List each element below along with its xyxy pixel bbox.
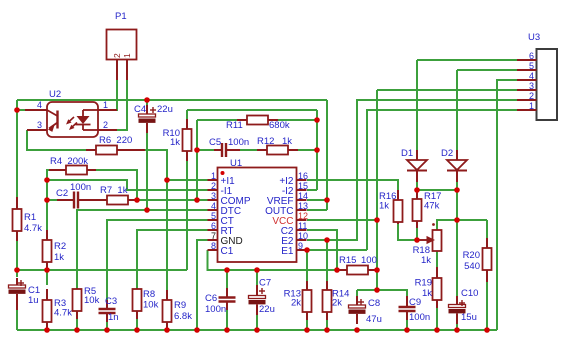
svg-text:R15: R15 (339, 255, 356, 266)
resistor R13 (303, 281, 312, 320)
svg-text:P1: P1 (115, 11, 127, 22)
U2 pin 1 stub (98, 100, 117, 110)
U1 pin 6 RT (208, 221, 234, 237)
svg-text:R9: R9 (174, 300, 186, 311)
resistor R17 (413, 189, 422, 228)
svg-text:47u: 47u (366, 314, 382, 325)
svg-text:14: 14 (298, 191, 308, 201)
wire DTC (77, 210, 208, 288)
wire R8 bottom (136, 319, 138, 330)
wire P1-2 to U2-2 (99, 80, 127, 130)
wire P1-1 to U2-1 (99, 80, 117, 110)
junction rail x=457 (454, 327, 460, 333)
wire R3 top (46, 270, 48, 285)
U3 pin 2 stub (517, 91, 537, 101)
wire R14 top (326, 240, 328, 286)
wire feedback vert (316, 110, 318, 190)
label C10 15u (461, 288, 478, 323)
junction rail x=257 (254, 327, 260, 333)
P1 pin 1 stub (122, 53, 132, 80)
resistor R10 (183, 119, 192, 161)
svg-text:C10: C10 (461, 288, 478, 299)
capacitor C10 (polarized) (449, 296, 466, 324)
wire C5 to R12 (238, 149, 259, 151)
label R3 4.7k (54, 298, 72, 319)
U1 pin 7 GND (208, 231, 243, 247)
wire VREF right drop to pin14 (326, 100, 328, 200)
svg-text:2: 2 (103, 120, 108, 130)
wire C1 bottom (16, 306, 18, 330)
U1 pin 10 E2 (281, 231, 308, 247)
junction C7 top (254, 267, 260, 273)
svg-text:1k: 1k (422, 288, 432, 299)
svg-text:1k: 1k (54, 252, 64, 263)
wire C10 bottom (456, 320, 458, 330)
resistor R2 (43, 230, 52, 270)
svg-text:2: 2 (211, 181, 216, 191)
svg-text:540: 540 (464, 261, 480, 272)
wire output node (456, 190, 458, 306)
U1 pin 5 CT (208, 211, 234, 227)
svg-text:100n: 100n (205, 304, 226, 315)
wire R10 top (186, 110, 188, 129)
U1 pin 4 DTC (208, 201, 242, 217)
junction E1/R13 (304, 247, 310, 253)
resistor R20 (483, 238, 492, 282)
wire R2 top (46, 200, 48, 240)
wire C2 left (47, 199, 66, 201)
wire VCC to C8/C9 (357, 290, 407, 303)
svg-text:C5: C5 (209, 137, 221, 148)
svg-text:4.7k: 4.7k (24, 223, 42, 234)
wire D2 to U3-5 (457, 69, 517, 71)
svg-text:R7 1k: R7 1k (100, 185, 128, 196)
svg-text:680k: 680k (269, 120, 290, 131)
svg-text:9: 9 (298, 241, 303, 251)
wire R14 bottom (326, 319, 328, 330)
U1 pin 16 +I2 (279, 171, 308, 187)
junction rail x=107 (104, 327, 110, 333)
wire C6 bottom (226, 308, 228, 330)
junction rail x=407 (404, 327, 410, 333)
junction R1 bottom (14, 267, 20, 273)
label C4 22u (134, 104, 173, 115)
svg-text:R1: R1 (24, 212, 36, 223)
wire U2-3 to R6 (27, 130, 96, 150)
wire C7 top (256, 270, 258, 293)
U1 pin 14 VREF (267, 191, 308, 207)
U2 LED (76, 110, 99, 130)
svg-text:C2: C2 (56, 188, 68, 199)
capacitor C6 (219, 288, 236, 310)
junction C2/R2 node (44, 197, 50, 203)
U1 pin 2 -I1 (208, 181, 233, 197)
wire C8 top (356, 290, 358, 304)
U2 pin 4 stub (25, 100, 47, 110)
junction VREF pin14 (324, 197, 330, 203)
wire R17 to wiper (416, 221, 418, 240)
wire OUTC pin13 (307, 209, 327, 211)
svg-text:U2: U2 (49, 89, 61, 100)
svg-text:4.7k: 4.7k (54, 308, 72, 319)
wire R6 to +I1 node (118, 150, 167, 180)
wire U2-4 to rail (17, 109, 26, 111)
junction R15/VCC (374, 267, 380, 273)
svg-text:R12: R12 (257, 136, 274, 147)
resistor R5 (73, 288, 82, 319)
svg-text:3: 3 (211, 191, 216, 201)
wire C3 bottom (106, 315, 108, 330)
wire left rail R1 (16, 110, 18, 199)
junction COMP/R7 (134, 197, 140, 203)
label R10 1k (163, 128, 181, 148)
resistor R1 (13, 197, 22, 241)
svg-text:C6: C6 (205, 293, 217, 304)
U2 light arrows (66, 117, 77, 130)
U1 pin 1 +I1 (208, 171, 236, 187)
svg-text:R4 200k: R4 200k (50, 156, 88, 167)
label R18 1k (413, 245, 432, 266)
svg-text:2k: 2k (332, 298, 342, 309)
capacitor C3 (99, 300, 116, 322)
svg-text:4: 4 (211, 201, 216, 211)
label R9 6.8k (174, 300, 192, 322)
svg-text:E1: E1 (281, 246, 294, 257)
wire C5 left (197, 149, 216, 151)
svg-text:C8: C8 (368, 298, 380, 309)
wire R12 right (296, 149, 317, 151)
label C9 100n (409, 297, 430, 323)
wire +I2 to R16 (307, 180, 398, 200)
svg-text:100n: 100n (228, 137, 249, 148)
U3 pin 1 stub (517, 101, 537, 111)
junction C4/DTC (144, 207, 150, 213)
junction Cnode/R15 (334, 267, 340, 273)
wire R16 bottom (398, 222, 415, 240)
svg-text:R2: R2 (54, 241, 66, 252)
junction rail x=197 (194, 327, 200, 333)
junction R2 bottom (44, 267, 50, 273)
capacitor C4 (polarized) (139, 105, 157, 133)
svg-text:1u: 1u (28, 295, 39, 306)
diode D2 (447, 150, 467, 182)
svg-text:1: 1 (103, 100, 108, 110)
wire D1 anode (416, 60, 418, 160)
wire R4 right to COMP node (88, 170, 137, 200)
label C2 100n (56, 182, 91, 199)
svg-text:6.8k: 6.8k (174, 311, 192, 322)
wire VCC pin12 (307, 219, 377, 221)
svg-text:1k: 1k (379, 201, 389, 212)
wire R5 bottom (76, 318, 78, 330)
label R14 2k (332, 289, 349, 309)
wire rail up to U3-4 (497, 80, 517, 330)
resistor R3 (43, 289, 52, 330)
wire R15 right (368, 269, 377, 271)
svg-text:15u: 15u (461, 312, 477, 323)
svg-text:6: 6 (529, 51, 534, 61)
wire E1 to U3-1 (367, 110, 517, 250)
wire C6 top (226, 270, 228, 294)
junction rail x=327 (324, 327, 330, 333)
label R1 4.7k (24, 212, 42, 234)
wire C4 bottom to DTC (146, 125, 148, 210)
U1 pin 11 C2 (281, 221, 308, 237)
resistor R14 (323, 281, 332, 320)
svg-text:22u: 22u (157, 104, 173, 115)
wire ground rail (17, 329, 497, 331)
wire R8 bottom2 (136, 318, 138, 330)
label C6 100n (205, 293, 226, 315)
junction rail x=487 (484, 327, 490, 333)
label R15 100 (339, 255, 377, 266)
resistor R8 (133, 288, 142, 319)
wire R18 top to output (437, 220, 487, 230)
svg-text:R8: R8 (143, 289, 155, 300)
wire R1 bottom (16, 241, 18, 277)
svg-text:C4: C4 (134, 104, 146, 115)
svg-text:5: 5 (529, 61, 534, 71)
svg-text:R11: R11 (226, 120, 243, 131)
optocoupler U2 box (47, 102, 98, 137)
resistor R12 (257, 146, 298, 155)
wire +I1 (167, 179, 208, 181)
svg-text:4: 4 (37, 100, 42, 110)
wire VREF left drop (16, 100, 18, 199)
label R5 10k (84, 286, 100, 306)
wire D2 cathode (456, 171, 458, 190)
svg-text:10k: 10k (84, 295, 100, 306)
junction C5/R11 tap (194, 147, 200, 153)
svg-text:C1: C1 (221, 246, 234, 257)
junction rail x=47 (44, 327, 50, 333)
label R11 680k (226, 120, 290, 131)
wire R17 down (416, 190, 418, 199)
connector P1 box (107, 30, 137, 60)
U1 pin 8 C1 (208, 241, 234, 257)
svg-text:15: 15 (298, 181, 308, 191)
trimmer R18 (419, 223, 442, 251)
U1 pin 9 E1 (281, 241, 306, 257)
wire R4 left (47, 170, 66, 180)
svg-text:13: 13 (298, 201, 308, 211)
svg-text:U3: U3 (528, 32, 540, 43)
wire OUTC to VREF (326, 200, 328, 210)
svg-text:1: 1 (529, 101, 534, 111)
capacitor C7 (polarized) (249, 285, 266, 315)
wire node down to C2/R2 (46, 180, 48, 200)
junction D1 cathode (414, 187, 420, 193)
diode D1 (407, 150, 427, 182)
junction rail x=167 (164, 327, 170, 333)
wire R11 right (277, 119, 317, 121)
U3 pin 5 stub (517, 61, 537, 71)
wire VREF pin14 (307, 199, 327, 201)
svg-text:22u: 22u (259, 304, 275, 315)
junction rail x=437 (434, 327, 440, 333)
U3 pin 3 stub (517, 81, 537, 91)
connector U3 box (537, 49, 558, 120)
label C1 1u (28, 285, 40, 306)
wire C7 bottom (256, 310, 258, 330)
svg-text:11: 11 (298, 221, 307, 231)
wire R10 bottom (186, 151, 188, 270)
junction VREF/C4 (144, 97, 150, 103)
U2 pin 3 stub (27, 120, 47, 130)
U2 phototransistor (47, 110, 58, 132)
junction +I1 node (164, 177, 170, 183)
wire R11 left (197, 119, 247, 121)
wire VREF top rail (17, 99, 327, 101)
svg-text:3: 3 (37, 120, 42, 130)
wire CT (107, 220, 208, 303)
junction rail x=357 (354, 327, 360, 333)
wire GND pin7 (197, 240, 208, 330)
svg-text:12: 12 (298, 211, 308, 221)
capacitor C8 (polarized) (349, 296, 366, 324)
op-amp U1 TL494 box (218, 168, 297, 263)
U2 pin 2 stub (98, 120, 117, 130)
resistor R6 (86, 146, 145, 155)
svg-text:1k: 1k (421, 255, 431, 266)
junction D2 cathode (454, 187, 460, 193)
label R8 10k (143, 289, 159, 311)
svg-text:R19: R19 (415, 278, 432, 289)
svg-text:1k: 1k (170, 137, 180, 148)
svg-text:10k: 10k (143, 300, 159, 311)
junction -I1/R4 node (44, 177, 50, 183)
svg-text:2k: 2k (291, 298, 301, 309)
svg-text:1: 1 (122, 53, 132, 58)
junction U2 pin4 (14, 107, 20, 113)
capacitor C1 (polarized) (9, 278, 26, 310)
label C3 1n (105, 296, 119, 323)
wire E1 (307, 249, 367, 251)
junction C6 top (224, 267, 230, 273)
svg-text:10: 10 (298, 231, 308, 241)
wire C9 bottom (406, 316, 408, 330)
svg-text:5: 5 (211, 211, 216, 221)
U1 pin1 mark (221, 171, 225, 175)
wire E2 to R14 (307, 239, 327, 241)
wire COMP vert from R11/C5 (196, 120, 198, 200)
U1 pin 13 OUTC (265, 201, 308, 217)
U1 pin 3 COMP (208, 191, 251, 207)
junction rail x=227 (224, 327, 230, 333)
P1 pin 2 stub (112, 53, 122, 80)
label R16 1k (379, 191, 396, 212)
wire D1 cathode node (417, 171, 457, 190)
capacitor C9 (399, 296, 416, 320)
wire D1 to U3-6 (417, 59, 517, 61)
wire +I1 node down to R9 (166, 180, 168, 298)
junction E2/R14 (324, 237, 330, 243)
wire -I1 to R4/C2 node (47, 180, 208, 190)
svg-text:D1: D1 (401, 148, 413, 159)
junction R12 right (314, 147, 320, 153)
resistor R16 (394, 190, 403, 224)
svg-text:2: 2 (112, 53, 122, 58)
label R2 1k (54, 241, 66, 263)
label C8 47u (366, 298, 382, 325)
capacitor C2 (57, 192, 107, 209)
svg-text:100n: 100n (409, 312, 430, 323)
svg-text:U1: U1 (230, 158, 242, 169)
junction rail x=77 (74, 327, 80, 333)
label R20 540 (463, 250, 480, 272)
wire VCC vert (376, 90, 378, 290)
U3 pin 4 stub (517, 71, 537, 81)
wire C4 top (146, 100, 148, 112)
svg-text:16: 16 (298, 171, 308, 181)
label R13 2k (284, 289, 302, 309)
svg-text:D2: D2 (441, 148, 453, 159)
svg-text:1n: 1n (108, 312, 119, 323)
wire R7 to COMP (137, 199, 208, 201)
wire R18 bottom to R19 (436, 251, 438, 279)
junction output node (454, 217, 460, 223)
wire RT (137, 230, 208, 289)
U1 pin 15 -I2 (282, 181, 308, 197)
svg-text:R6 220: R6 220 (99, 135, 132, 146)
label R12 1k (257, 136, 292, 147)
svg-text:6: 6 (211, 221, 216, 231)
svg-text:47k: 47k (424, 201, 440, 212)
resistor R11 (237, 116, 278, 125)
wire R13 top (306, 250, 308, 286)
svg-text:8: 8 (211, 241, 216, 251)
label C5 100n (209, 137, 249, 148)
junction COMP vert (194, 197, 200, 203)
junction rail x=307 (304, 327, 310, 333)
svg-text:C7: C7 (259, 278, 271, 289)
resistor R19 (433, 267, 442, 308)
wire R20 top (486, 220, 488, 248)
wire C1 pin8 (208, 250, 338, 270)
capacitor C5 (214, 143, 240, 157)
junction VCC/C8/C9 (374, 287, 380, 293)
wire R13 bottom (306, 319, 308, 330)
svg-text:C9: C9 (409, 297, 421, 308)
wire VCC to U3-3 (377, 89, 517, 91)
resistor R9 (163, 290, 172, 330)
wire bias node (17, 269, 187, 271)
junction R11 right (314, 117, 320, 123)
label C7 22u (259, 278, 275, 316)
svg-text:R20: R20 (463, 250, 480, 261)
label R19 1k (415, 278, 433, 300)
resistor R4 (49, 166, 96, 175)
junction R17/R18 wiper (414, 237, 420, 243)
wire R19 bottom (436, 306, 438, 330)
junction VCC line (374, 217, 380, 223)
svg-text:1k: 1k (282, 136, 292, 147)
wire R20 bottom (486, 280, 488, 330)
svg-text:4: 4 (529, 71, 534, 81)
U1 pin 12 VCC (272, 211, 308, 227)
wire y=110 R10 to feedback (187, 109, 317, 111)
U3 pin 6 stub (517, 51, 537, 61)
wire E2 to U3-2 (327, 100, 517, 240)
wire C2pin to Cnode (307, 230, 337, 270)
wire -I2 (307, 189, 317, 191)
svg-text:1: 1 (211, 171, 216, 181)
wire D2 anode (456, 70, 458, 160)
wire R15 left (337, 269, 347, 271)
svg-text:3: 3 (529, 81, 534, 91)
svg-text:100: 100 (361, 255, 377, 266)
svg-text:100n: 100n (70, 182, 91, 193)
